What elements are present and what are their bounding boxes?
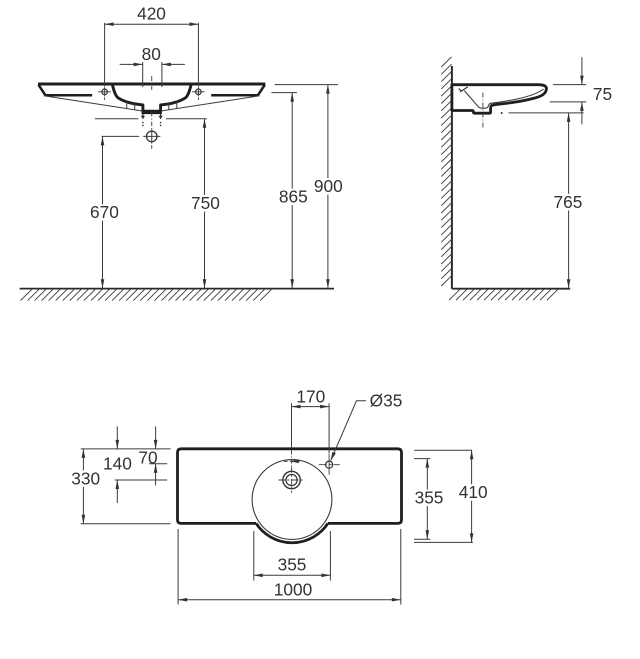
plan view: small hole vertical crosshair bbox=[328, 454, 330, 474]
svg-text:75: 75 bbox=[593, 84, 612, 104]
dimension 75: lower dimension line bbox=[581, 102, 583, 124]
side view: reference dot bbox=[501, 112, 503, 114]
svg-text:355: 355 bbox=[415, 488, 444, 508]
dimension 75: upper arrow bbox=[580, 76, 584, 85]
plan view: bowl bulge arc bbox=[256, 523, 328, 542]
dimension 140: lower reference line bbox=[115, 479, 168, 481]
dimension 420: right extension line bbox=[197, 23, 199, 87]
svg-text:750: 750 bbox=[191, 193, 220, 213]
dimension 750: bottom arrow bbox=[203, 279, 207, 288]
front view: basin left underside edge bbox=[45, 94, 93, 97]
front view: right mounting hole vertical crosshair bbox=[197, 87, 199, 96]
dimension 170: dimension line bbox=[292, 406, 330, 408]
dimension 80: left arrow bbox=[134, 63, 143, 67]
dimension 70: lower reference line bbox=[149, 463, 167, 465]
front view: right rib tick 2 bbox=[168, 104, 170, 110]
dimension 80: right arrow bbox=[162, 63, 171, 67]
dimension 70: lower dimension line bbox=[155, 464, 157, 486]
dimension 420: dimension line bbox=[105, 23, 199, 25]
dimension 355 right: value text bbox=[413, 490, 445, 507]
dimension 355 bottom: left arrow bbox=[254, 574, 263, 578]
dimension 80: right outside line bbox=[162, 63, 185, 65]
dimension 670: dimension line bbox=[102, 136, 104, 288]
front view: left mounting hole horizontal crosshair bbox=[98, 91, 111, 93]
side view: floor line bbox=[452, 288, 570, 290]
dimension 70: upper dimension line bbox=[155, 426, 157, 449]
dimension 1000: right extension line bbox=[400, 529, 402, 605]
front view: floor hatching bbox=[21, 289, 272, 300]
front view: floor line bbox=[20, 288, 334, 290]
svg-text:140: 140 bbox=[103, 454, 132, 474]
svg-text:330: 330 bbox=[71, 468, 100, 488]
front view: left underside hidden slope line bbox=[44, 96, 143, 111]
dimension 865: top reference line bbox=[271, 92, 297, 94]
dimension 355 bottom: right arrow bbox=[321, 574, 330, 578]
dimension 420: left extension line bbox=[104, 23, 106, 87]
side view: wall hatching bbox=[441, 57, 451, 286]
dimension 670: top arrow bbox=[101, 136, 105, 145]
dimension 765: value text bbox=[552, 194, 584, 211]
dimension 900: dimension line bbox=[327, 85, 329, 289]
front view: drain tail right dots bbox=[160, 122, 162, 124]
label Ø35: leader arrowhead bbox=[331, 452, 336, 461]
dimension 410: top arrow bbox=[470, 450, 474, 459]
plan view: faucet centerline arrow bbox=[290, 460, 299, 464]
front view: basin left end chamfer bbox=[39, 85, 46, 95]
dimension 670: top reference line bbox=[102, 135, 140, 137]
dimension 330: bottom arrow bbox=[82, 515, 86, 524]
dimension 330: value text bbox=[70, 470, 102, 487]
dimension 355 bottom: dimension line bbox=[254, 574, 331, 576]
side view: wall line bbox=[451, 66, 453, 289]
plan view: faucet hole outer circle bbox=[283, 471, 300, 488]
dimension 330: bottom reference line bbox=[81, 523, 171, 525]
dimension 670: bottom arrow bbox=[101, 279, 105, 288]
dimension 900: top reference line bbox=[275, 84, 338, 86]
dimension 410: bottom arrow bbox=[470, 533, 474, 542]
plan left dims: top reference line bbox=[81, 448, 171, 450]
side view: floor hatching bbox=[449, 289, 558, 300]
front view: right underside hidden slope line bbox=[161, 96, 260, 111]
dimension 420: right arrow bbox=[189, 22, 198, 26]
svg-text:70: 70 bbox=[138, 448, 157, 468]
dimension 1000: right arrow bbox=[392, 598, 401, 602]
dimension 1000: left extension line bbox=[177, 529, 179, 605]
side view: bowl interior line bbox=[464, 89, 543, 108]
dimension 170: left extension line bbox=[291, 403, 293, 448]
front view: left mounting hole vertical crosshair bbox=[104, 87, 106, 96]
front view: right rib tick 1 bbox=[176, 102, 178, 109]
front view: faucet centerline through rim bbox=[151, 76, 153, 90]
plan view: faucet centerline arrow tail bbox=[290, 460, 300, 462]
front view: right mounting hole horizontal crosshair bbox=[192, 91, 205, 93]
front view: drain tail left arrow bbox=[141, 116, 145, 120]
dimension 865: top arrow bbox=[290, 93, 294, 102]
front view: left rib tick 1 bbox=[126, 102, 128, 109]
dimension 765: dimension line bbox=[568, 113, 570, 289]
svg-text:1000: 1000 bbox=[274, 579, 312, 599]
dimension 140: lower arrow bbox=[116, 480, 120, 489]
dimension 750: top arrow bbox=[203, 119, 207, 128]
dimension 410: bottom reference line bbox=[414, 541, 473, 543]
front view: trap connection circle bbox=[146, 131, 157, 142]
front view: left mounting hole center tail bbox=[104, 97, 106, 100]
front view: bowl outline with drain boss bbox=[112, 85, 191, 111]
dimension 355 bottom: left extension line bbox=[253, 531, 255, 581]
label Ø35: leader line bbox=[331, 401, 366, 461]
dimension 170: left arrow bbox=[292, 405, 301, 409]
dimension 80: right extension line bbox=[161, 62, 163, 87]
side view: overflow mark bbox=[459, 87, 468, 92]
dimension 355 right: top arrow bbox=[426, 459, 430, 468]
plan view: basin outline with bowl bulge bbox=[178, 449, 402, 524]
dimension 900: value text bbox=[312, 178, 344, 195]
dimension 865: dimension line bbox=[291, 93, 293, 289]
dimension 355 bottom: right extension line bbox=[329, 531, 331, 581]
dimension 420: left arrow bbox=[105, 22, 114, 26]
front view: basin top edge bbox=[38, 83, 265, 86]
plan right dims: top reference line bbox=[414, 449, 472, 451]
dimension 900: top arrow bbox=[326, 85, 330, 94]
dimension 75: lower arrow bbox=[580, 102, 584, 111]
dimension 865: bottom arrow bbox=[290, 279, 294, 288]
front view: left rib tick 2 bbox=[134, 104, 136, 110]
dimension 330: top arrow bbox=[82, 449, 86, 458]
svg-text:670: 670 bbox=[90, 202, 119, 222]
dimension 355 right: top reference line bbox=[414, 458, 430, 460]
front view: basin right end chamfer bbox=[258, 85, 265, 95]
dimension 80: left extension line bbox=[142, 62, 144, 87]
dimension 765: top reference line bbox=[509, 112, 584, 114]
front view: drain tail left wall bbox=[142, 114, 144, 117]
front view: drain tail left dots bbox=[142, 122, 144, 124]
dimension 410: dimension line bbox=[471, 450, 473, 542]
svg-text:900: 900 bbox=[314, 176, 343, 196]
front view: trap circle vertical crosshair bbox=[151, 129, 153, 143]
dimension 900: bottom arrow bbox=[326, 279, 330, 288]
front view: drain boss bottom bbox=[142, 111, 162, 114]
svg-text:410: 410 bbox=[459, 482, 488, 502]
dimension 140: lower dimension line bbox=[116, 480, 118, 503]
dimension 75: upper dimension line bbox=[581, 57, 583, 84]
front view: trap centerline tail bbox=[151, 145, 153, 149]
plan view: faucet hole horizontal crosshair bbox=[279, 479, 305, 481]
svg-text:765: 765 bbox=[553, 192, 582, 212]
dimension 75: top reference line bbox=[553, 84, 586, 86]
dimension 170: right extension line bbox=[328, 403, 330, 453]
front view: drain tail right arrow bbox=[159, 116, 163, 120]
svg-text:170: 170 bbox=[296, 386, 325, 406]
plan view: small hole horizontal crosshair bbox=[319, 464, 340, 466]
dimension 330: dimension line bbox=[82, 449, 84, 524]
side view: basin profile outline bbox=[452, 85, 547, 114]
dimension 75: bottom reference line bbox=[550, 101, 587, 103]
dimension 865: value text bbox=[277, 189, 309, 206]
dimension 750: value text bbox=[190, 195, 222, 212]
dimension 355 right: bottom arrow bbox=[426, 530, 430, 539]
svg-text:Ø35: Ø35 bbox=[370, 390, 403, 410]
dimension 70: upper arrow bbox=[154, 440, 158, 449]
front view: drain centerline dashes bbox=[151, 112, 153, 131]
side view: drain centerline bbox=[482, 93, 484, 130]
front view: drain tail right wall bbox=[160, 114, 162, 117]
dimension 140: upper arrow bbox=[116, 440, 120, 449]
plan view: faucet centerline dash bbox=[284, 460, 288, 462]
front view: trap circle horizontal crosshair bbox=[143, 135, 160, 137]
dimension 80: left outside line bbox=[120, 63, 143, 65]
svg-text:355: 355 bbox=[278, 554, 307, 574]
dimension 170: right arrow bbox=[320, 405, 329, 409]
svg-text:80: 80 bbox=[142, 44, 161, 64]
dimension 670: value text bbox=[89, 204, 121, 221]
dimension 170: left extension dashes bbox=[291, 451, 293, 467]
dimension 750: dimension line bbox=[204, 119, 206, 289]
front view: right mounting hole bbox=[196, 89, 202, 95]
front view: left mounting hole bbox=[102, 89, 108, 95]
plan view: small hole Ø35 bbox=[326, 461, 333, 468]
dimension 355 right: dimension line bbox=[426, 459, 428, 540]
dimension 750: reference line left segment bbox=[95, 118, 138, 120]
front view: basin right underside edge bbox=[211, 94, 259, 97]
dimension 1000: left arrow bbox=[178, 598, 187, 602]
dimension 140: upper dimension line bbox=[116, 426, 118, 449]
front view: right mounting hole center tail bbox=[197, 97, 199, 100]
dimension 765: top arrow bbox=[567, 113, 571, 122]
svg-text:420: 420 bbox=[137, 4, 166, 24]
dimension 355 right: bottom reference line bbox=[414, 538, 430, 540]
dimension 750: reference line right segment bbox=[166, 118, 207, 120]
dimension 70: lower arrow bbox=[154, 464, 158, 473]
plan view: bowl rim circle bbox=[252, 460, 332, 540]
plan view: faucet hole inner circle bbox=[286, 474, 297, 485]
dimension 765: bottom arrow bbox=[567, 279, 571, 288]
dimension 410: value text bbox=[457, 484, 489, 501]
plan view: faucet hole vertical crosshair bbox=[291, 467, 293, 493]
svg-text:865: 865 bbox=[279, 187, 308, 207]
dimension 1000: dimension line bbox=[178, 599, 401, 601]
